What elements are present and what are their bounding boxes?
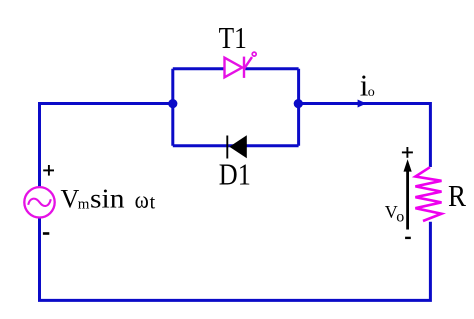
wire: left vertical below source, bottom wire, right vertical lower segment: [40, 218, 431, 301]
AC source circle: [24, 187, 54, 217]
node: right junction dot: [294, 99, 303, 108]
Vo arrow head: [404, 159, 412, 171]
node: left junction dot: [168, 99, 177, 108]
label - (source): [43, 232, 49, 235]
svg-text:m: m: [78, 197, 90, 213]
wire: branch left vertical riser: [171, 69, 174, 146]
Vo arrow line: [406, 166, 409, 230]
svg-text:V: V: [61, 185, 80, 214]
svg-text:t: t: [150, 191, 156, 213]
svg-text:D1: D1: [219, 157, 251, 192]
svg-text:ω: ω: [135, 188, 149, 214]
label + (resistor): [402, 147, 413, 158]
resistor R zigzag: [415, 167, 441, 221]
svg-text:T1: T1: [219, 20, 247, 55]
wire: top-right horizontal from right junction and right vertical upper segment: [299, 104, 431, 168]
label + (source): [43, 165, 54, 176]
wire: branch right vertical riser: [297, 69, 300, 146]
svg-text:o: o: [368, 85, 375, 100]
svg-text:sin: sin: [90, 184, 125, 214]
current arrow io on wire: [358, 100, 367, 108]
svg-text:R: R: [448, 178, 466, 213]
thyristor T1 symbol: [225, 52, 257, 78]
svg-text:o: o: [396, 208, 404, 225]
wire: bottom branch with D1: [173, 144, 299, 147]
wire: top branch right of T1: [245, 67, 298, 70]
wire: left vertical (above source) and top-left horizontal to left junction: [40, 104, 173, 188]
diode D1 symbol: [227, 135, 247, 158]
wire: top branch left of T1: [173, 67, 224, 70]
label - (resistor): [405, 237, 411, 239]
